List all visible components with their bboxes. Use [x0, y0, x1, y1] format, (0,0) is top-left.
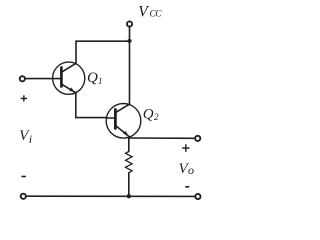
svg-text:o: o: [188, 163, 194, 177]
svg-text:V: V: [138, 4, 149, 21]
svg-text:Q: Q: [143, 107, 154, 123]
svg-text:Q: Q: [87, 70, 98, 86]
svg-text:1: 1: [98, 76, 103, 86]
svg-text:CC: CC: [150, 10, 163, 20]
svg-text:2: 2: [154, 112, 159, 122]
svg-text:i: i: [29, 132, 32, 146]
